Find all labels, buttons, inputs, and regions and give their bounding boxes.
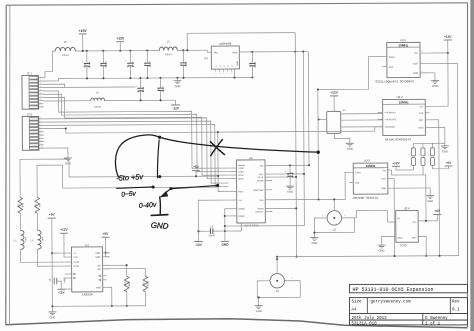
inductor L2	[91, 91, 105, 108]
svg-text:10nF: 10nF	[184, 61, 186, 67]
wire U2-3 OUT	[393, 178, 395, 256]
svg-text:LM393M: LM393M	[82, 293, 93, 296]
pen: arrow to node	[159, 184, 219, 198]
svg-text:8: 8	[41, 140, 42, 142]
oscillator U2-3 ISOTEMP OCXO131	[348, 158, 430, 194]
svg-text:10MHz: 10MHz	[398, 43, 408, 47]
svg-text:+12V: +12V	[116, 36, 125, 40]
svg-text:U2-1: U2-1	[400, 38, 407, 42]
svg-text:6: 6	[41, 134, 42, 136]
svg-text:A4: A4	[352, 309, 358, 313]
wire LK2 to U2-4 Vcc	[423, 175, 426, 221]
svg-text:Size: Size	[352, 300, 363, 305]
capacitor C3	[125, 51, 133, 79]
svg-text:-12V: -12V	[172, 106, 180, 110]
title block	[350, 284, 468, 326]
svg-text:+: +	[125, 60, 127, 63]
power symbol -12V (filter)	[171, 105, 180, 110]
svg-text:+5V: +5V	[446, 161, 453, 165]
oscillator U2-4 TCXO	[396, 206, 427, 242]
wire bundle f (long)	[44, 126, 378, 134]
svg-text:OVENGND: OVENGND	[385, 127, 396, 129]
label LM393M	[82, 293, 93, 296]
wire U4 Vout rail	[239, 51, 308, 54]
capacitor C9	[50, 277, 65, 289]
svg-text:Vss: Vss	[238, 200, 241, 202]
ground (U2-1)	[425, 73, 439, 88]
wire -12V feed	[44, 99, 176, 106]
svg-text:OUT1: OUT1	[74, 262, 80, 264]
svg-text:C9: C9	[50, 278, 52, 282]
svg-text:NC: NC	[216, 64, 218, 67]
svg-text:4: 4	[223, 73, 224, 75]
wire oven links	[341, 114, 383, 127]
svg-text:10K: 10K	[21, 203, 23, 208]
power symbol +15V	[79, 29, 88, 51]
svg-text:100uH: 100uH	[94, 107, 101, 109]
ground (C7)	[221, 241, 230, 246]
wire vdd vertical	[307, 52, 310, 166]
wire U5 SDO	[272, 173, 305, 175]
svg-text:+5V: +5V	[434, 209, 441, 213]
svg-text:OUT: OUT	[413, 63, 418, 65]
svg-text:-5to +5v: -5to +5v	[116, 172, 145, 183]
power symbol +12V (U2-1)	[444, 35, 453, 105]
svg-text:5: 5	[422, 61, 423, 63]
svg-text:L1: L1	[167, 40, 170, 43]
wire bundle g	[217, 131, 229, 192]
svg-text:GND: GND	[312, 241, 318, 245]
ground (J4)	[310, 231, 318, 244]
capacitor C7	[198, 226, 225, 237]
wire vref vertical b	[303, 52, 304, 226]
svg-text:0-40v: 0-40v	[139, 202, 157, 210]
svg-text:GND: GND	[413, 73, 418, 75]
wire bundle e	[44, 124, 229, 187]
wire J2-1 row4 run	[44, 86, 136, 89]
svg-text:L4: L4	[31, 240, 34, 242]
wire bundle a	[44, 90, 229, 169]
svg-text:U2-4: U2-4	[404, 206, 411, 210]
pen: underline and dot	[117, 186, 155, 189]
svg-text:+: +	[285, 170, 287, 173]
wire bundle d	[44, 118, 229, 180]
svg-text:+V: +V	[74, 253, 77, 255]
svg-text:9: 9	[41, 144, 42, 146]
svg-text:6: 6	[231, 73, 232, 75]
svg-text:Vdd: Vdd	[260, 166, 264, 168]
oscillator U2-1 OSCILLOQUARTZ OCXO8663	[379, 38, 425, 78]
svg-text:Vcc: Vcc	[382, 170, 387, 172]
svg-text:3: 3	[219, 73, 220, 75]
svg-text:ADR4508: ADR4508	[219, 42, 232, 46]
svg-text:IN: IN	[397, 218, 400, 220]
svg-text:J2-2: J2-2	[27, 112, 33, 116]
ground (C8b)	[286, 184, 294, 193]
svg-text:TCXO: TCXO	[399, 244, 406, 247]
ground (oven)	[346, 143, 354, 150]
wire R2 net	[37, 164, 217, 197]
svg-text:LDAC: LDAC	[238, 170, 244, 173]
wire bundle d2	[44, 121, 229, 184]
svg-text:Vout: Vout	[232, 51, 237, 54]
svg-text:GND: GND	[221, 243, 229, 247]
capacitor C8	[100, 51, 106, 79]
svg-text:2: 2	[215, 73, 216, 75]
label DATUM OCXO85243	[385, 138, 411, 141]
wire jumper tops	[413, 142, 444, 144]
svg-text:3: 3	[428, 154, 429, 156]
svg-text:Q1: Q1	[343, 110, 347, 112]
capacitor C5	[135, 78, 143, 101]
svg-text:SDWN: SDWN	[257, 181, 264, 183]
svg-text:2: 2	[419, 154, 420, 156]
wire U2-1 OUT	[425, 63, 459, 255]
svg-text:Refe: Refe	[238, 191, 243, 193]
connector J2-1	[22, 71, 44, 109]
wire output bus	[276, 255, 459, 258]
wire bundle b	[44, 93, 229, 173]
svg-text:STB2: STB2	[95, 257, 101, 259]
wire U5 REFIN	[272, 207, 297, 209]
svg-text:GND: GND	[256, 309, 262, 313]
svg-text:AGND: AGND	[238, 208, 245, 211]
svg-text:2: 2	[291, 278, 292, 280]
svg-text:+5V: +5V	[103, 232, 110, 236]
svg-text:+15V: +15V	[79, 29, 88, 33]
svg-text:100nF: 100nF	[253, 61, 255, 68]
svg-text:2: 2	[40, 121, 41, 123]
capacitor C6	[82, 51, 90, 79]
wire Vout to U2-3 Fvent	[345, 172, 348, 199]
svg-text:L2: L2	[96, 91, 99, 94]
wire +12V rail	[75, 49, 211, 53]
svg-text:GND: GND	[442, 149, 448, 153]
svg-text:1: 1	[409, 154, 410, 156]
svg-text:+: +	[82, 60, 84, 63]
svg-text:7: 7	[40, 96, 41, 98]
svg-text:GND: GND	[50, 315, 56, 319]
power symbol -12V (U5)	[194, 242, 203, 247]
svg-text:OUT2: OUT2	[74, 266, 80, 268]
ground (jumpers)	[441, 146, 449, 153]
svg-text:8: 8	[40, 99, 41, 101]
transistor Q1 oven driver	[317, 110, 346, 134]
connector J2-2	[22, 112, 44, 150]
svg-text:BIN/COMP: BIN/COMP	[253, 190, 264, 192]
ground (U1 bottom)	[48, 306, 56, 319]
svg-text:J3: J3	[276, 289, 279, 293]
wire EFC to U2-1	[317, 57, 381, 200]
svg-text:OVENSTATE: OVENSTATE	[385, 118, 398, 121]
svg-text:C10: C10	[250, 62, 252, 67]
svg-text:IN2: IN2	[97, 269, 101, 271]
resistor R1	[18, 197, 23, 213]
svg-text:4: 4	[422, 71, 423, 73]
svg-text:10: 10	[40, 106, 42, 108]
inductor L4	[31, 213, 44, 249]
svg-text:NC: NC	[224, 64, 226, 67]
svg-text:100uH: 100uH	[62, 55, 69, 57]
ground (J2-2)	[64, 158, 72, 165]
voltage reference U4 ADR4508	[204, 42, 239, 78]
svg-text:1uH: 1uH	[24, 237, 26, 241]
svg-text:GND: GND	[347, 147, 353, 151]
svg-text:2: 2	[40, 80, 41, 82]
resistor R4	[124, 276, 129, 292]
svg-text:Rev: Rev	[452, 301, 460, 305]
ground (U2-3)	[426, 188, 434, 203]
wire U2-4 GND	[381, 237, 395, 245]
label ISOTEMP OCXO131	[352, 197, 378, 200]
svg-text:SYNC: SYNC	[238, 168, 244, 170]
power symbol +5V (U2-4)	[425, 209, 441, 222]
svg-text:2: 2	[344, 215, 345, 217]
wire U2-1 Vcc	[425, 52, 448, 54]
svg-text:100nF: 100nF	[208, 235, 215, 237]
svg-text:DGND: DGND	[239, 216, 246, 218]
pen: GND stroke	[151, 197, 168, 216]
svg-text:220R: 220R	[127, 281, 129, 287]
capacitor C1	[180, 50, 186, 78]
svg-text:Vref: Vref	[389, 66, 394, 69]
svg-text:GND: GND	[397, 238, 402, 240]
svg-text:GND: GND	[150, 221, 169, 231]
connector J3	[257, 257, 300, 298]
power symbol +12V (U1)	[60, 228, 69, 257]
wire ground rail	[83, 76, 253, 79]
svg-text:5: 5	[40, 89, 41, 91]
svg-text:10MHz: 10MHz	[399, 100, 409, 104]
wire U1 out1 to R4	[103, 264, 128, 276]
wire U5 Vout	[272, 198, 345, 201]
svg-text:DATUM OCXO85243: DATUM OCXO85243	[385, 138, 411, 141]
svg-text:10: 10	[41, 147, 43, 149]
wire U1 out2 to R3	[103, 269, 146, 277]
svg-text:GND: GND	[237, 61, 239, 66]
svg-text:REFOUT: REFOUT	[255, 211, 264, 213]
svg-text:GND: GND	[381, 188, 386, 190]
svg-text:NC: NC	[232, 64, 234, 67]
svg-text:gerrysweeney.com: gerrysweeney.com	[371, 301, 412, 305]
wire oven gnd	[334, 133, 350, 143]
wire U5 SCLR	[272, 176, 297, 178]
svg-text:100nF: 100nF	[63, 277, 65, 284]
svg-text:+5V: +5V	[49, 213, 56, 217]
svg-text:9: 9	[40, 102, 41, 104]
comparator U1 LM393M	[64, 243, 109, 292]
svg-text:GND: GND	[287, 190, 293, 194]
svg-text:+12V: +12V	[60, 228, 68, 232]
svg-text:6: 6	[40, 93, 41, 95]
wire U2-4 IN	[354, 210, 395, 222]
svg-text:1: 1	[40, 118, 41, 120]
svg-text:0~5v: 0~5v	[121, 190, 137, 198]
svg-text:STB1: STB1	[95, 253, 101, 255]
resistor R2	[35, 197, 40, 213]
wire C7 left / -12V	[197, 200, 229, 241]
svg-text:3: 3	[40, 83, 41, 85]
svg-text:8: 8	[422, 51, 423, 53]
svg-text:L3: L3	[14, 240, 17, 242]
svg-text:U2-3: U2-3	[364, 159, 371, 163]
svg-text:L5: L5	[64, 41, 67, 44]
svg-text:GND: GND	[96, 287, 101, 289]
svg-text:NC: NC	[220, 64, 222, 67]
svg-text:ISOTEMP OCXO131: ISOTEMP OCXO131	[352, 197, 378, 200]
wire U2-4 OUT	[425, 236, 427, 257]
svg-text:47uF: 47uF	[88, 62, 90, 68]
svg-text:100nF: 100nF	[148, 61, 150, 68]
oscillator U2-2 DATUM OCXO85243	[378, 95, 430, 136]
pen: text -5to +5v	[116, 172, 145, 183]
jumper links LK1 LK2 LK3	[409, 143, 434, 165]
svg-text:1uH: 1uH	[41, 237, 43, 241]
svg-text:GND: GND	[65, 161, 71, 165]
inductor L5	[52, 41, 75, 57]
svg-text:10MHz: 10MHz	[366, 164, 376, 168]
wire resistor bottoms	[103, 287, 146, 307]
svg-text:3: 3	[40, 124, 41, 126]
label TCXO	[399, 244, 406, 247]
svg-text:REFIN: REFIN	[257, 209, 264, 211]
svg-text:J4: J4	[333, 228, 336, 232]
wire bundle c	[44, 96, 229, 176]
capacitor C2	[144, 51, 150, 79]
power symbol +12V	[116, 36, 125, 50]
svg-text:10K: 10K	[38, 203, 40, 208]
inductor L3	[14, 213, 27, 249]
svg-text:Vin: Vin	[214, 52, 218, 55]
svg-text:+: +	[135, 85, 137, 88]
capacitor C8b (Vdd decoupling)	[285, 165, 293, 184]
svg-text:+12V: +12V	[444, 35, 452, 39]
wire R1 net	[20, 158, 218, 197]
svg-text:Fvent: Fvent	[389, 56, 395, 59]
pen: X cross-out	[210, 140, 224, 156]
pen: node dot upper	[158, 175, 161, 178]
capacitor C4	[157, 78, 163, 101]
svg-text:GND: GND	[175, 84, 181, 88]
wire +5V to U1	[52, 252, 64, 254]
svg-text:NC: NC	[228, 64, 230, 67]
svg-text:GND: GND	[379, 249, 385, 253]
capacitor C10	[249, 52, 255, 78]
svg-text:U4: U4	[204, 56, 208, 60]
svg-text:GND: GND	[418, 127, 423, 129]
svg-text:29th July 2013: 29th July 2013	[352, 316, 388, 321]
wire bottom bus	[51, 305, 145, 308]
svg-text:4: 4	[40, 127, 41, 129]
svg-text:G Sweeney: G Sweeney	[425, 317, 448, 321]
ground (filter)	[173, 78, 181, 88]
svg-text:1: 1	[262, 278, 263, 280]
svg-text:OUT: OUT	[381, 178, 386, 180]
svg-text:Fvent: Fvent	[355, 171, 361, 174]
svg-text:SDO: SDO	[259, 174, 264, 176]
wire L4 to U1	[38, 249, 65, 266]
wire U2-2 Vcc	[430, 104, 449, 106]
svg-text:7: 7	[41, 137, 42, 139]
wire vref vertical a	[294, 33, 297, 258]
wire U5 Vdd	[272, 164, 310, 166]
power symbol +5V (STB)	[101, 232, 109, 257]
label AD7243AR	[244, 224, 258, 227]
svg-text:220R: 220R	[146, 281, 148, 287]
svg-text:IN1: IN1	[97, 265, 101, 267]
svg-text:-12V: -12V	[58, 290, 64, 294]
svg-text:Fadj: Fadj	[419, 113, 424, 115]
svg-text:HP 53131-010 OCXO Expansion: HP 53131-010 OCXO Expansion	[353, 287, 434, 293]
svg-text:0.1: 0.1	[452, 309, 460, 313]
wire LK2 to U2-3 Vcc	[392, 165, 424, 175]
svg-text:R4: R4	[125, 282, 127, 286]
power symbol +5V (U1)	[48, 213, 57, 307]
svg-text:U2-2: U2-2	[397, 95, 404, 99]
svg-text:100uH: 100uH	[165, 54, 172, 56]
svg-text:100nF: 100nF	[161, 86, 163, 93]
power symbol +5V (mid)	[192, 165, 200, 177]
wire J2-2 gnd	[44, 148, 68, 158]
power symbol -12V (C9)	[57, 289, 65, 294]
svg-text:1: 1	[40, 76, 41, 78]
svg-text:OUT: OUT	[412, 238, 417, 240]
svg-text:+12V: +12V	[392, 161, 400, 165]
svg-text:J2-1: J2-1	[26, 71, 32, 75]
pen: text GND	[150, 221, 169, 231]
svg-text:47uF: 47uF	[131, 62, 133, 68]
svg-text:Vcc: Vcc	[414, 53, 419, 55]
svg-text:OUT: OUT	[419, 120, 424, 122]
wire U2-2 OUT	[430, 120, 440, 256]
svg-text:SCLK: SCLK	[238, 175, 244, 177]
pen: text 0-40v	[139, 202, 158, 210]
power symbol +5V (LK)	[444, 161, 452, 166]
wire loop above U4	[186, 33, 295, 52]
wire LK3 to +5V	[433, 165, 449, 168]
svg-text:Vcc: Vcc	[420, 106, 425, 108]
label OSCILLOQUARTZ OCXO8663	[375, 80, 413, 83]
svg-text:+12V: +12V	[330, 91, 338, 95]
svg-text:-12V: -12V	[195, 243, 203, 247]
svg-text:1 of 1: 1 of 1	[425, 322, 441, 327]
svg-text:100nF: 100nF	[104, 61, 106, 68]
svg-text:OSCILLOQUARTZ OCXO8663: OSCILLOQUARTZ OCXO8663	[375, 80, 413, 83]
svg-text:Vref: Vref	[355, 182, 359, 185]
svg-text:GND: GND	[427, 199, 433, 203]
DAC U5 AD7243AR	[228, 156, 272, 223]
wire J2-1 pin3 jog	[44, 84, 65, 87]
svg-text:VCC: VCC	[74, 257, 79, 259]
wire J2-1 pin1 to L5	[43, 51, 52, 78]
svg-text:R2: R2	[35, 203, 37, 207]
svg-text:100nF: 100nF	[291, 172, 293, 179]
svg-text:5: 5	[40, 131, 41, 133]
svg-text:1: 1	[322, 215, 323, 217]
wire J2-1 pin2 to gnd rail	[43, 78, 83, 81]
wire LK1 to +12V	[396, 166, 414, 171]
wire C7 right / GND	[224, 208, 305, 241]
power symbol +12V (LK)	[392, 161, 401, 166]
svg-text:5: 5	[227, 73, 228, 75]
svg-text:Vout: Vout	[259, 199, 263, 202]
pen: curve to EFC node	[115, 134, 320, 178]
svg-text:53131A_010: 53131A_010	[352, 323, 378, 327]
resistor R3	[143, 276, 148, 292]
svg-text:OVENMinus: OVENMinus	[385, 112, 396, 114]
connector J4	[314, 199, 354, 232]
svg-text:Vcc: Vcc	[413, 222, 418, 224]
